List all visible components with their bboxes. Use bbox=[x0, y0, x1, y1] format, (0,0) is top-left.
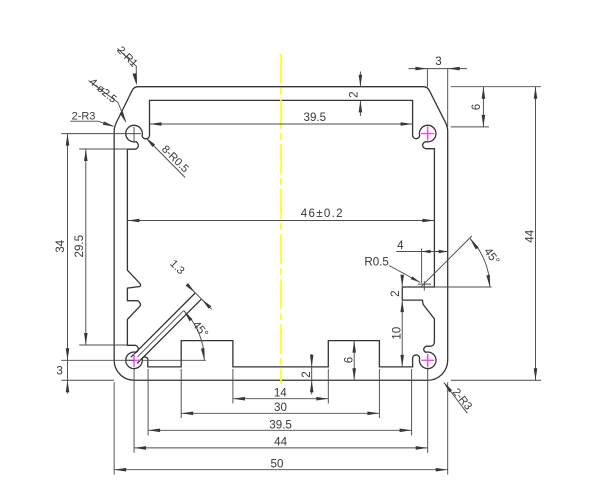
svg-text:3: 3 bbox=[435, 55, 441, 68]
dimension 50 (overall width, bottom) bbox=[114, 382, 448, 474]
dimension 44 (screw center spacing, bottom) bbox=[134, 369, 428, 453]
angle dimension 45&#176; (right rib chamfer) bbox=[421, 236, 502, 287]
svg-text:2: 2 bbox=[300, 371, 313, 377]
svg-text:3: 3 bbox=[56, 364, 62, 377]
dimension 6 (bottom rail height) bbox=[343, 341, 356, 381]
svg-text:44: 44 bbox=[524, 229, 537, 242]
R0.5 fillet center mark cross bbox=[418, 281, 431, 291]
dimension 39.5 (top inner width) bbox=[150, 111, 413, 126]
dimension 2 (top wall thickness) bbox=[347, 72, 362, 117]
svg-text:2: 2 bbox=[389, 290, 402, 296]
svg-text:6: 6 bbox=[343, 357, 356, 363]
svg-text:10: 10 bbox=[391, 327, 404, 340]
leader 4-&#248;2.5 (screw holes) bbox=[87, 76, 127, 123]
dimension 44 (overall height, right) bbox=[451, 87, 541, 381]
center mark, bottom-right boss (magenta cross) bbox=[421, 354, 434, 367]
dimension 10 (rib to inner bottom) bbox=[391, 327, 404, 340]
svg-text:2-R3: 2-R3 bbox=[450, 386, 474, 412]
dimension 1.3 (fin thickness) bbox=[167, 258, 211, 309]
center mark, top-right boss (magenta cross) bbox=[421, 127, 434, 141]
leader R0.5 (rib root fillet) bbox=[364, 256, 420, 283]
leader 8-R0.5 (boss slot corner radii) bbox=[145, 137, 191, 177]
leader 2-R3 (bottom corner radii) bbox=[443, 382, 474, 414]
svg-text:1.3: 1.3 bbox=[167, 258, 186, 277]
dimension 3 (top-right chamfer width) bbox=[409, 55, 468, 127]
dimension 3 (screw center to bottom, left) bbox=[56, 364, 114, 392]
outer profile outline (50 x 44 body, R1 top chamfer corners, R3 corners) bbox=[114, 87, 448, 381]
svg-text:30: 30 bbox=[274, 401, 287, 414]
leader 2-R3 (top corner radii) bbox=[70, 111, 115, 127]
dimension 2 (bottom wall thickness) bbox=[300, 354, 314, 395]
svg-text:2-R3: 2-R3 bbox=[72, 111, 96, 123]
dimension 14 (bottom slot width) bbox=[233, 369, 328, 404]
45-degree PCB guide fin, upper edge bbox=[131, 293, 195, 357]
dimension 34 (screw center spacing, left) bbox=[54, 134, 141, 394]
dimension 6 (top-right chamfer height) bbox=[451, 87, 541, 127]
center mark, bottom-left boss (magenta cross) bbox=[127, 354, 140, 367]
inner cavity outline with 4 screw bosses (4-&#248;2.5), side ribs and bottom slot bbox=[126, 100, 436, 368]
angle dimension 45&#176; (guide fin) bbox=[138, 311, 211, 361]
svg-text:46±0.2: 46±0.2 bbox=[301, 207, 344, 220]
svg-text:50: 50 bbox=[271, 458, 284, 471]
svg-text:39.5: 39.5 bbox=[304, 111, 327, 124]
svg-text:34: 34 bbox=[54, 239, 67, 252]
svg-text:2: 2 bbox=[347, 91, 360, 97]
vertical centerline (yellow dashed) bbox=[280, 54, 282, 384]
svg-text:29.5: 29.5 bbox=[73, 235, 86, 258]
45-degree PCB guide fin, lower edge bbox=[137, 299, 201, 363]
dimension 39.5 (bottom inner width) bbox=[148, 369, 412, 436]
svg-text:4: 4 bbox=[397, 239, 404, 252]
leader 2-R1 (top chamfer corner radii) bbox=[114, 44, 139, 85]
svg-text:4-ø2.5: 4-ø2.5 bbox=[87, 76, 119, 106]
svg-text:44: 44 bbox=[274, 435, 287, 448]
svg-text:8-R0.5: 8-R0.5 bbox=[159, 143, 191, 175]
svg-text:45°: 45° bbox=[481, 245, 502, 267]
svg-text:39.5: 39.5 bbox=[269, 419, 292, 432]
svg-text:14: 14 bbox=[274, 386, 287, 399]
center mark, top-left boss (black) bbox=[133, 127, 135, 142]
dimension 29.5 (inner shelf spacing, left) bbox=[73, 149, 128, 345]
svg-text:R0.5: R0.5 bbox=[364, 256, 389, 269]
dimension 4 (rib corner to outer wall) bbox=[396, 239, 448, 283]
dimension 46±0.2 (inner cavity width) bbox=[127, 207, 434, 222]
svg-text:6: 6 bbox=[470, 104, 483, 110]
dimension 2 (right rib thickness) bbox=[389, 275, 404, 367]
dimension 30 (bottom rails outer width) bbox=[181, 369, 379, 418]
